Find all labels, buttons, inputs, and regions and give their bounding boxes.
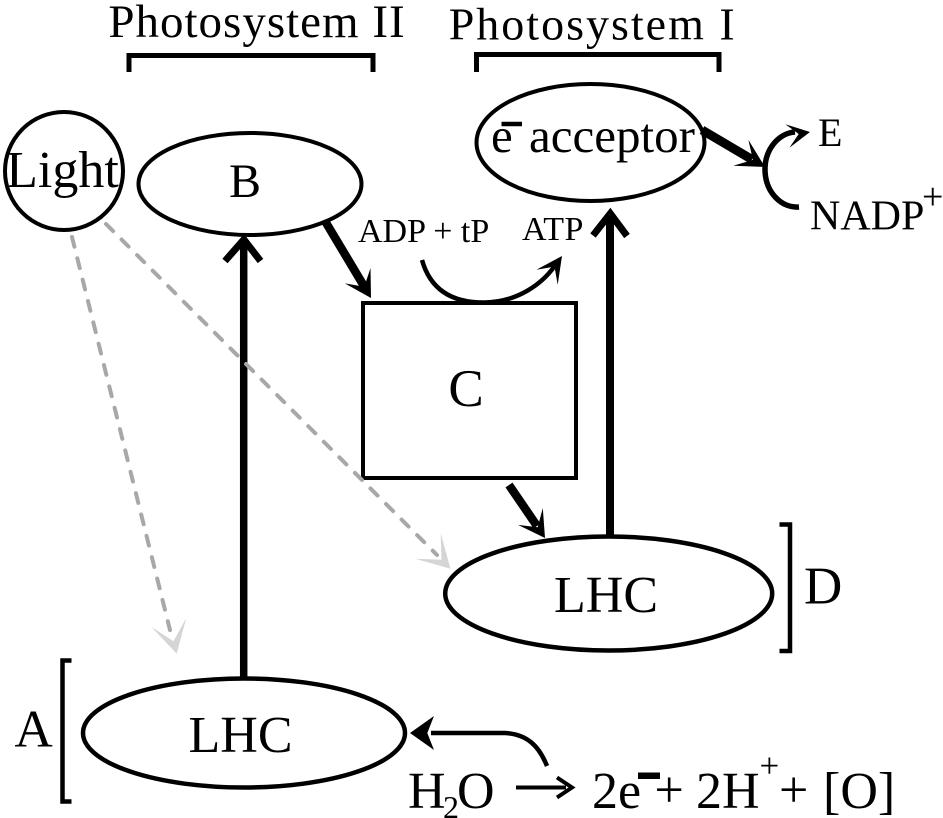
node Light (circle) [5,112,123,230]
svg-text:2e: 2e [592,763,641,818]
svg-text:H: H [408,763,446,818]
svg-text:A: A [15,701,53,759]
thick arrow C to LHC (right) [509,485,537,526]
node LHC bottom (ellipse) [83,679,405,788]
svg-text:NADP: NADP [810,194,924,240]
arrow from H2O into LHC bottom [431,733,547,766]
node C (box) [363,303,576,478]
svg-text:[O]: [O] [823,763,895,818]
svg-text:ATP: ATP [522,211,584,248]
svg-text:Light: Light [6,142,119,199]
svg-text:+: + [922,176,943,218]
svg-text:C: C [448,360,483,418]
svg-text:+: + [760,747,780,786]
bracket under Photosystem II [129,56,373,73]
curved arrow ADP to ATP [422,260,558,303]
svg-text:e: e [491,108,513,163]
curved arrow NADP+ to E [765,132,799,207]
thick arrow LHC(bottom) up to B [240,241,248,678]
svg-text:Photosystem II: Photosystem II [108,0,405,48]
thick arrow: e- acceptor to NADP junction [702,130,752,160]
node e- acceptor (ellipse) [477,84,705,201]
reaction arrow H2O to products [516,786,566,790]
bracket D [780,525,791,652]
svg-text:LHC: LHC [189,707,293,764]
bracket under Photosystem I [477,55,720,73]
dashed arrow Light to LHC bottom [72,237,170,630]
node B (ellipse) [139,133,362,235]
svg-text:Photosystem I: Photosystem I [449,0,737,50]
bracket A [63,661,72,802]
svg-text:2H: 2H [696,763,760,818]
svg-text:acceptor: acceptor [529,108,695,163]
svg-text:LHC: LHC [554,567,658,624]
svg-text:+: + [779,762,808,818]
svg-text:E: E [818,110,842,155]
node LHC right (ellipse) [445,537,772,651]
dashed arrow Light to LHC right [106,224,437,555]
svg-text:B: B [229,155,261,208]
svg-text:D: D [804,558,842,616]
thick arrow LHC(right) up to e- acceptor [606,216,614,537]
svg-text:ADP + tP: ADP + tP [358,213,489,250]
thick arrow B to C [325,221,365,287]
svg-text:O: O [457,763,495,818]
svg-text:+: + [655,762,684,818]
